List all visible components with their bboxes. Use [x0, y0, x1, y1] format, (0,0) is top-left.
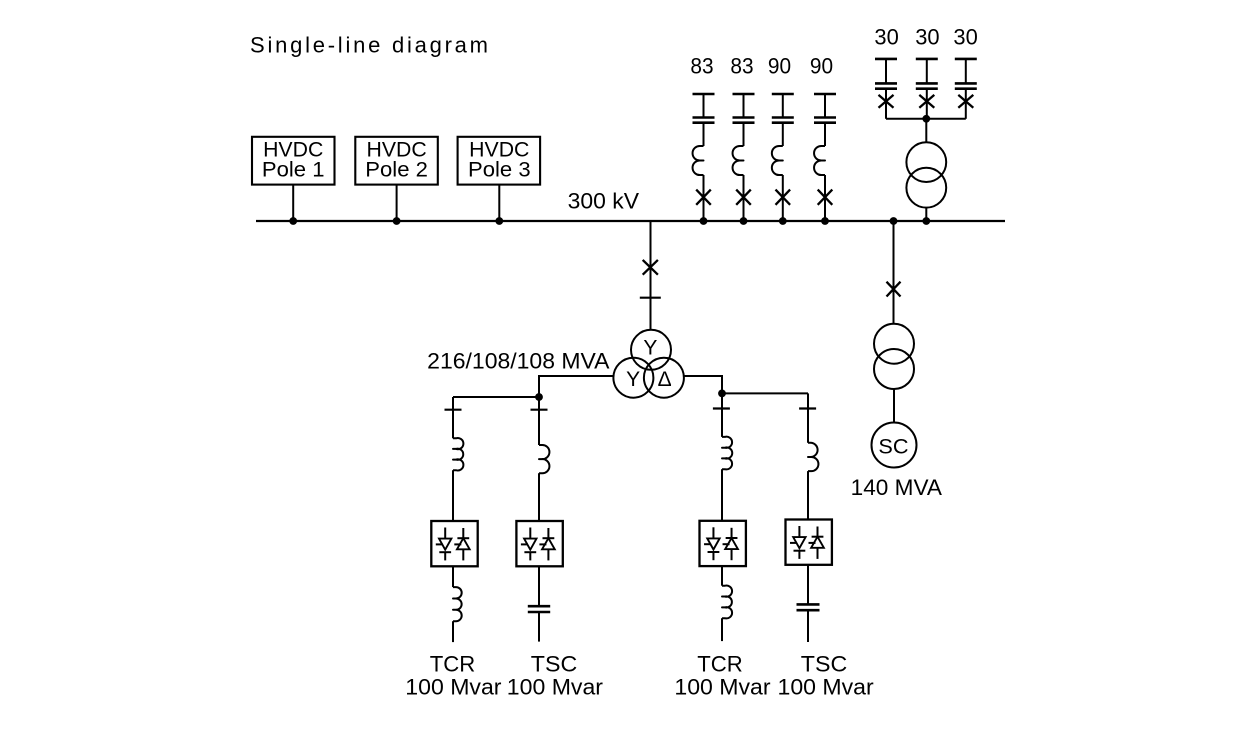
- node left bundle junction: [535, 393, 543, 401]
- wire TSC branch B upper: [538, 397, 540, 445]
- disconnector filter branch 2: [736, 190, 751, 205]
- wire 30 Mvar collector: [886, 118, 966, 120]
- HVDC Pole 2 box: [355, 137, 438, 185]
- disconnector 30 Mvar branch 3: [958, 95, 973, 108]
- wire transformer T2 right lead: [684, 376, 722, 393]
- svg-text:SC: SC: [878, 435, 908, 458]
- reactor filter branch 3: [772, 146, 783, 175]
- wire branch C end: [721, 618, 723, 641]
- capacitor 30 Mvar branch 2: [916, 59, 938, 89]
- wire bus to transformer T3: [893, 221, 895, 324]
- wire HVDC Pole 2 to bus: [396, 185, 398, 221]
- node filter branch 2 bus junction: [740, 217, 748, 225]
- svg-text:100 Mvar: 100 Mvar: [507, 675, 603, 700]
- wire valve to capacitor branch B: [538, 566, 540, 606]
- wire transformer T2 left lead: [539, 376, 614, 397]
- wire TSC branch D upper: [807, 393, 809, 442]
- wire HVDC Pole 1 to bus: [292, 185, 294, 221]
- wire TCR branch C upper: [721, 393, 723, 437]
- wire 30 Mvar branch 2: [926, 89, 928, 119]
- wire filter branch 4 lower: [824, 175, 826, 221]
- disconnector tick branch A: [445, 409, 462, 411]
- svg-text:Single-line diagram: Single-line diagram: [250, 32, 488, 57]
- wire 30 Mvar branch 1: [885, 89, 887, 119]
- wire TCR branch A upper: [452, 397, 454, 438]
- reactor branch C (phase reactor): [722, 437, 732, 470]
- svg-text:90: 90: [810, 54, 833, 79]
- capacitor branch B: [528, 606, 550, 612]
- reactor filter branch 2: [733, 146, 744, 175]
- disconnector tick branch D: [799, 407, 816, 409]
- capacitor filter branch 1: [693, 94, 715, 123]
- svg-text:100 Mvar: 100 Mvar: [778, 675, 874, 700]
- wire left bundle crossarm: [453, 396, 539, 398]
- node filter branch 3 bus junction: [779, 217, 787, 225]
- disconnector tick branch B: [531, 409, 548, 411]
- svg-text:Pole 2: Pole 2: [365, 158, 428, 181]
- thyristor valve TSC branch B: [516, 521, 562, 566]
- disconnector filter branch 1: [696, 190, 711, 205]
- reactor filter branch 1: [693, 146, 704, 175]
- svg-text:Y: Y: [643, 336, 657, 359]
- wire filter branch 1 lower: [703, 175, 705, 221]
- wire branch A to valve: [452, 470, 454, 521]
- wire filter branch 3: [782, 123, 784, 146]
- thyristor valve TCR branch C: [700, 521, 746, 566]
- reactor branch C (TCR reactor): [722, 586, 732, 619]
- svg-text:TCR: TCR: [697, 651, 743, 676]
- disconnector tick branch C: [713, 407, 730, 409]
- node HVDC Pole 2 bus junction: [393, 217, 401, 225]
- wire transformer T3 to SC: [893, 389, 895, 423]
- transformer T1 (30 Mvar bank): [906, 142, 946, 207]
- node filter branch 4 bus junction: [821, 217, 829, 225]
- reactor branch A (TCR reactor): [453, 587, 462, 621]
- node transformer T1 bus junction: [922, 217, 930, 225]
- svg-text:TSC: TSC: [531, 651, 578, 676]
- svg-text:83: 83: [690, 54, 713, 79]
- reactor branch D: [808, 443, 818, 471]
- reactor branch B: [539, 445, 549, 473]
- svg-text:30: 30: [953, 24, 977, 49]
- disconnector filter branch 4: [818, 190, 833, 205]
- wire filter branch 4: [824, 123, 826, 146]
- svg-text:140 MVA: 140 MVA: [851, 475, 943, 500]
- earthing switch tick middle branch: [640, 297, 661, 299]
- svg-text:30: 30: [874, 24, 898, 49]
- capacitor filter branch 2: [733, 94, 755, 123]
- disconnector middle branch: [643, 260, 658, 275]
- svg-text:TCR: TCR: [430, 651, 476, 676]
- disconnector 30 Mvar branch 1: [879, 95, 894, 108]
- wire valve to capacitor branch D: [807, 565, 809, 605]
- wire branch B to valve: [538, 473, 540, 521]
- node HVDC Pole 3 bus junction: [495, 217, 503, 225]
- thyristor valve TCR branch A: [431, 521, 477, 566]
- wire transformer T1 to bus: [925, 208, 927, 221]
- wire branch D end: [807, 610, 809, 642]
- svg-text:100 Mvar: 100 Mvar: [405, 675, 501, 700]
- wire filter branch 2 lower: [743, 175, 745, 221]
- wire valve to reactor branch A: [452, 566, 454, 587]
- wire bus to transformer T2: [650, 221, 652, 330]
- synchronous condenser SC: [872, 423, 917, 468]
- wire 30 Mvar branch 3: [965, 89, 967, 119]
- svg-text:216/108/108 MVA: 216/108/108 MVA: [427, 349, 610, 374]
- capacitor 30 Mvar branch 3: [955, 59, 977, 89]
- HVDC Pole 3 box: [458, 137, 540, 185]
- node right bundle junction: [718, 390, 726, 398]
- svg-text:100 Mvar: 100 Mvar: [674, 675, 770, 700]
- wire filter branch 1: [703, 123, 705, 146]
- svg-text:Pole 3: Pole 3: [468, 158, 531, 181]
- node filter branch 1 bus junction: [700, 217, 708, 225]
- capacitor branch D: [797, 604, 820, 610]
- node SC branch bus junction: [890, 217, 898, 225]
- capacitor 30 Mvar branch 1: [875, 59, 897, 89]
- disconnector filter branch 3: [776, 190, 791, 205]
- svg-text:Y: Y: [626, 368, 640, 391]
- transformer T3 (SC): [874, 324, 914, 389]
- wire branch A end: [452, 621, 454, 642]
- capacitor filter branch 4: [814, 94, 836, 123]
- node collector junction: [922, 115, 930, 123]
- capacitor filter branch 3: [772, 94, 794, 123]
- disconnector SC branch: [887, 282, 901, 297]
- wire collector to transformer T1: [925, 119, 927, 142]
- wire branch D to valve: [807, 471, 809, 519]
- svg-text:83: 83: [730, 54, 753, 79]
- wire right bundle crossarm: [722, 392, 808, 394]
- transformer T2 three-winding Y/Y/D: [613, 330, 684, 398]
- reactor filter branch 4: [814, 146, 825, 175]
- svg-text:300 kV: 300 kV: [568, 188, 640, 213]
- svg-text:30: 30: [915, 24, 939, 49]
- bus 300 kV: [256, 220, 1005, 222]
- svg-text:90: 90: [768, 54, 791, 79]
- thyristor valve TSC branch D: [786, 520, 832, 565]
- wire filter branch 3 lower: [782, 175, 784, 221]
- svg-text:TSC: TSC: [801, 651, 848, 676]
- HVDC Pole 1 box: [252, 137, 335, 185]
- disconnector 30 Mvar branch 2: [919, 95, 934, 108]
- node HVDC Pole 1 bus junction: [289, 217, 297, 225]
- wire filter branch 2: [743, 123, 745, 146]
- wire branch C to valve: [721, 469, 723, 521]
- wire HVDC Pole 3 to bus: [498, 185, 500, 221]
- wire valve to reactor branch C: [721, 566, 723, 586]
- svg-text:Pole 1: Pole 1: [262, 158, 325, 181]
- wire branch B end: [538, 612, 540, 642]
- svg-text:Δ: Δ: [658, 368, 672, 391]
- reactor branch A (phase reactor): [453, 438, 463, 471]
